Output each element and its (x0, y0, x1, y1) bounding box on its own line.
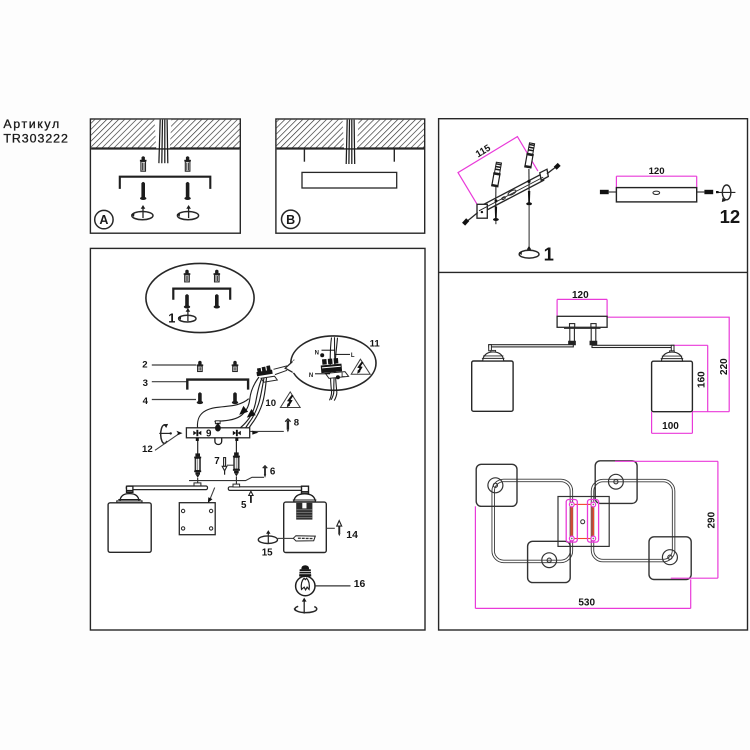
screw right in balloon (214, 294, 220, 308)
panel main frame (90, 248, 425, 630)
anchor right A (184, 156, 191, 171)
svg-text:100: 100 (662, 421, 679, 432)
arm left (126, 483, 207, 493)
shade square bottom-right (649, 537, 691, 580)
side screw right (697, 191, 714, 193)
anchor left A (140, 156, 147, 171)
dim 290 (615, 461, 718, 578)
right panel frame (439, 119, 748, 630)
turn icon left A (131, 205, 153, 220)
svg-text:12: 12 (142, 444, 153, 455)
warning triangle 10 (280, 392, 300, 408)
dim 115 (458, 137, 538, 205)
canopy plan (558, 497, 609, 547)
wing nut right (233, 430, 241, 441)
step marker B (282, 210, 300, 228)
leader 16 (315, 585, 350, 587)
svg-text:2: 2 (142, 359, 147, 370)
threaded rod left (194, 441, 201, 483)
mount tube right highlight (591, 502, 594, 540)
side screw left (600, 190, 617, 194)
screw line left (493, 187, 499, 224)
screw 8 (285, 419, 290, 433)
svg-text:10: 10 (265, 398, 276, 409)
canopy plate B (302, 172, 397, 188)
stem right (590, 324, 597, 345)
bulb base (299, 565, 311, 576)
svg-text:1: 1 (168, 310, 175, 325)
svg-text:L: L (351, 353, 355, 359)
dim 220 (607, 317, 729, 412)
svg-text:160: 160 (696, 371, 707, 388)
terminal plate detail (325, 372, 348, 379)
leader 12 (155, 435, 178, 451)
wire loop under plate (215, 438, 222, 445)
svg-text:4: 4 (143, 396, 149, 407)
shade square top-right (595, 461, 637, 504)
shade square top-left (476, 464, 517, 506)
panel box A frame (90, 119, 240, 233)
arrow cursor 12 (176, 431, 182, 436)
nipple left arm (127, 486, 133, 492)
right panel divider (439, 271, 748, 273)
canopy plate 9 (186, 428, 249, 438)
ceiling wires B (346, 120, 355, 164)
right shade section (284, 502, 327, 552)
svg-text:8: 8 (294, 417, 300, 428)
dome right elevation (661, 352, 682, 361)
screw left A (140, 182, 146, 200)
ceiling wires A (159, 120, 168, 164)
plate pointer arrow (210, 488, 214, 499)
center hole (581, 520, 585, 524)
svg-text:1: 1 (544, 243, 554, 264)
end screw left (464, 213, 478, 225)
screw 7 (222, 458, 227, 475)
leader 3 (152, 381, 188, 383)
plate slot right (588, 500, 599, 543)
mounting bar A (120, 177, 211, 189)
svg-text:7: 7 (214, 456, 220, 467)
stem left (569, 324, 576, 345)
panel box B frame (276, 119, 425, 233)
svg-text:290: 290 (707, 511, 718, 528)
svg-text:11: 11 (370, 339, 381, 350)
red frame (572, 504, 594, 538)
anchor part 2 right (232, 361, 239, 372)
dim 120 elevation (557, 299, 607, 317)
shade square bottom-left (528, 541, 571, 582)
screw 5 (249, 491, 253, 503)
arrow 8 (252, 431, 258, 435)
dim 160 (673, 345, 707, 411)
screw right A (184, 182, 190, 200)
bulb globe (296, 576, 315, 595)
mount tube left highlight (570, 502, 573, 540)
ceiling hatch A (91, 120, 240, 149)
shade circle top-left (488, 478, 503, 493)
svg-text:15: 15 (262, 547, 273, 558)
ceiling hatch B (277, 120, 424, 149)
turn icon in balloon (178, 308, 196, 322)
square mounting plate (179, 503, 215, 535)
svg-text:B: B (286, 213, 295, 227)
elbow right (671, 345, 674, 351)
shade circle bottom-left (542, 553, 557, 568)
svg-text:220: 220 (719, 358, 730, 375)
svg-text:14: 14 (346, 530, 358, 541)
terminal block detail (320, 358, 342, 373)
cable grip knob (215, 423, 221, 432)
detail balloon 11 (285, 336, 376, 390)
left shade glass (108, 503, 151, 553)
screw 14 (337, 521, 342, 537)
shade circle top-right (609, 474, 624, 489)
turn icon 12 side (716, 185, 735, 202)
shade circle bottom-right (662, 550, 677, 565)
dim 530 (475, 506, 690, 608)
shade right elevation (652, 361, 693, 412)
turn icon right A (177, 205, 199, 220)
wires in balloon (330, 337, 338, 400)
svg-text:120: 120 (572, 290, 589, 301)
arm left elevation (489, 345, 574, 347)
right shade bell dome (294, 494, 316, 502)
svg-text:120: 120 (649, 166, 665, 177)
anchor stud left tilted (491, 162, 503, 188)
turn icon 12 (159, 424, 172, 443)
balloon pointer lines (274, 366, 288, 369)
wire arrow right (247, 409, 256, 418)
turn icon 1 (519, 246, 539, 258)
canopy elevation (557, 316, 607, 327)
leader 4 (152, 399, 196, 401)
anchor part 2 left (197, 361, 204, 372)
svg-text:L: L (341, 373, 345, 379)
leader 15 (278, 537, 294, 539)
anchor right in balloon (214, 270, 221, 282)
screw part 4 left (197, 392, 203, 404)
mounting bar in balloon (173, 289, 230, 300)
wire labels N L (309, 351, 355, 380)
dim 100 (652, 412, 693, 434)
mounting bar part 3 (187, 380, 248, 390)
plate screws (569, 502, 595, 541)
arm loop right plan (593, 481, 674, 561)
dim 120 top (616, 176, 696, 191)
wire arrow left (239, 406, 248, 415)
ceiling screw right B (393, 149, 395, 162)
wing nut left (193, 430, 201, 441)
bracket bar tilted (477, 169, 548, 218)
svg-text:N: N (309, 373, 313, 379)
dim label 115 (474, 142, 494, 160)
plate slot left (566, 500, 577, 543)
bracket side view (616, 188, 696, 202)
anchor left in balloon (184, 270, 191, 282)
terminal block (256, 365, 278, 382)
dome left elevation (483, 352, 504, 361)
svg-text:530: 530 (578, 598, 595, 609)
end screw right (547, 164, 559, 173)
arm right elevation (592, 345, 674, 347)
warning triangle in balloon (351, 359, 370, 374)
leader 7 (227, 464, 234, 466)
arm loop left plan (493, 480, 571, 561)
wires bundle (197, 377, 266, 436)
cable clamp (215, 421, 220, 424)
svg-text:A: A (99, 213, 108, 227)
step marker A (95, 210, 113, 228)
svg-text:Артикул: Артикул (3, 117, 60, 131)
svg-text:TR303222: TR303222 (3, 132, 68, 146)
arm right (228, 484, 308, 494)
shade left elevation (472, 361, 513, 411)
svg-text:16: 16 (354, 579, 366, 590)
screw 6 (263, 466, 268, 478)
detail balloon kit (146, 263, 254, 332)
turn icon 16 (295, 598, 317, 614)
leader 2 (152, 364, 196, 366)
ceiling screw left B (303, 149, 305, 162)
anchor stud right tilted (524, 143, 536, 169)
screw left in balloon (184, 294, 190, 308)
leader 8 (250, 430, 284, 432)
svg-text:3: 3 (143, 378, 148, 389)
shade retaining ring (293, 536, 315, 541)
leader 14 (327, 527, 335, 529)
elbow left (489, 345, 492, 351)
screw line right (526, 169, 532, 251)
nipple right arm (302, 486, 309, 494)
turn icon 15 (258, 530, 277, 543)
svg-text:12: 12 (720, 206, 741, 227)
leader 6 (189, 477, 264, 480)
svg-text:N: N (315, 351, 319, 357)
threaded rod right (233, 441, 240, 484)
screw part 4 right (232, 392, 238, 404)
svg-text:6: 6 (270, 466, 276, 477)
bulb filament glass (301, 578, 309, 590)
svg-text:9: 9 (206, 428, 212, 439)
left shade dome (120, 494, 139, 502)
socket body dark (296, 503, 312, 520)
svg-text:5: 5 (241, 500, 247, 511)
